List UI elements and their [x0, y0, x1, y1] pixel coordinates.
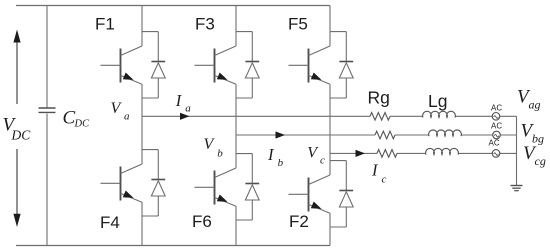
svg-text:F5: F5	[288, 14, 308, 33]
diode across F1	[151, 62, 165, 79]
wire left rail lower	[46, 114, 48, 246]
wire diode branch F2	[330, 161, 346, 227]
svg-text:F1: F1	[95, 14, 115, 33]
transistor F3 (IGBT)	[195, 46, 237, 84]
diode across F6	[245, 184, 259, 201]
diode across F2	[339, 191, 353, 208]
wire left rail upper	[46, 6, 48, 109]
svg-text:a: a	[185, 103, 191, 115]
svg-text:F4: F4	[100, 213, 120, 232]
wire diode branch F3	[236, 32, 252, 98]
source AC phase b	[493, 131, 501, 139]
svg-text:AC: AC	[489, 139, 500, 148]
svg-text:Rg: Rg	[368, 88, 390, 108]
transistor F1 (IGBT)	[101, 46, 143, 84]
svg-text:b: b	[217, 148, 223, 160]
wire phase a output	[142, 115, 370, 117]
diode across F5	[339, 62, 353, 79]
svg-text:c: c	[320, 155, 325, 167]
source AC phase c	[492, 150, 500, 158]
wire grid rail	[516, 116, 518, 185]
svg-text:a: a	[124, 111, 130, 123]
svg-text:DC: DC	[74, 119, 91, 130]
wire inverter leg b (collector bus to emitter bus)	[235, 6, 237, 47]
transistor F6 (IGBT)	[195, 168, 237, 206]
arrow current Ib	[276, 131, 286, 138]
transistor F4 (IGBT)	[101, 164, 143, 202]
diode across F4	[151, 180, 165, 197]
wire diode branch F1	[142, 32, 158, 98]
wire inverter leg a (collector bus to emitter bus)	[141, 6, 143, 47]
arrow VDC down (voltage reference)	[16, 149, 18, 214]
wire phase c output	[330, 152, 377, 154]
wire bottom DC bus	[16, 245, 330, 247]
resistor Rg phase a	[370, 113, 390, 121]
arrow current Ic	[356, 150, 366, 157]
resistor Rg phase c	[377, 150, 397, 158]
capacitor CDC	[39, 107, 56, 109]
inductor Lg phase b	[429, 130, 462, 136]
wire phase b output	[236, 134, 375, 136]
svg-text:b: b	[278, 157, 284, 169]
diode across F3	[245, 62, 259, 79]
wire diode branch F4	[142, 150, 158, 216]
svg-text:Lg: Lg	[428, 91, 447, 111]
svg-text:F3: F3	[195, 14, 215, 33]
wire inverter leg c (collector bus to emitter bus)	[329, 6, 331, 47]
wire diode branch F5	[330, 32, 346, 98]
ground	[511, 185, 523, 187]
inductor Lg phase c	[426, 148, 459, 154]
svg-text:F6: F6	[192, 212, 212, 231]
svg-text:c: c	[382, 174, 387, 186]
svg-text:ag: ag	[529, 98, 541, 112]
svg-text:AC: AC	[491, 122, 502, 131]
source AC phase a	[492, 113, 500, 121]
resistor Rg phase b	[375, 131, 395, 139]
inductor Lg phase a	[423, 111, 456, 117]
arrow current Ia	[180, 113, 190, 120]
transistor F2 (IGBT)	[289, 175, 331, 213]
svg-text:F2: F2	[289, 212, 309, 231]
svg-text:cg: cg	[535, 154, 546, 168]
transistor F5 (IGBT)	[289, 46, 331, 84]
arrow VDC up (voltage reference)	[16, 42, 18, 104]
svg-text:DC: DC	[11, 128, 32, 143]
wire diode branch F6	[236, 154, 252, 220]
svg-text:AC: AC	[491, 104, 502, 113]
wire top DC bus	[16, 5, 330, 7]
